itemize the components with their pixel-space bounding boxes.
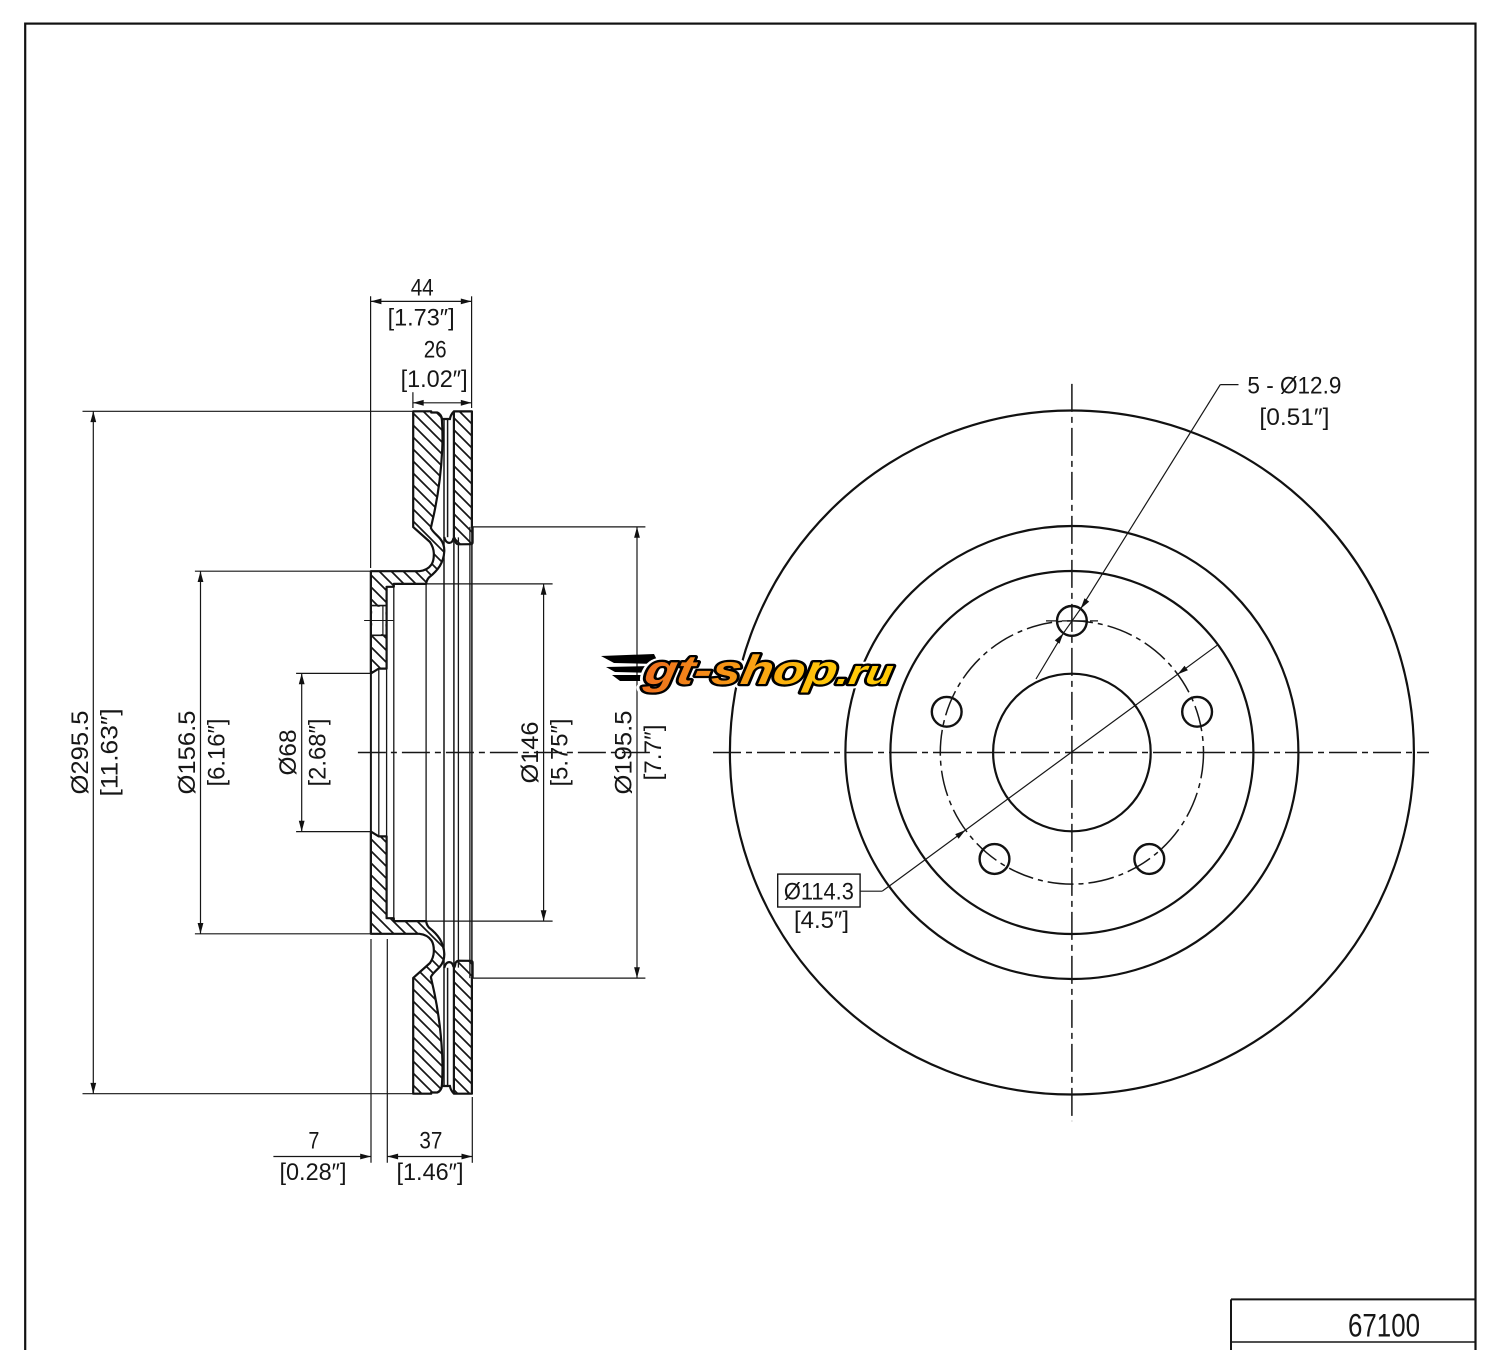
svg-text:[1.46″]: [1.46″] bbox=[397, 1159, 464, 1186]
svg-text:[1.73″]: [1.73″] bbox=[388, 305, 455, 332]
svg-text:Ø114.3: Ø114.3 bbox=[784, 879, 854, 906]
svg-text:[4.5″]: [4.5″] bbox=[794, 907, 849, 934]
svg-text:[5.75″]: [5.75″] bbox=[547, 719, 574, 787]
svg-text:37: 37 bbox=[419, 1127, 442, 1154]
svg-text:67100: 67100 bbox=[1348, 1308, 1420, 1344]
svg-text:[11.63″]: [11.63″] bbox=[96, 709, 123, 797]
svg-text:[0.51″]: [0.51″] bbox=[1259, 404, 1329, 431]
svg-text:5 - Ø12.9: 5 - Ø12.9 bbox=[1247, 372, 1341, 399]
svg-text:7: 7 bbox=[308, 1127, 319, 1154]
svg-text:Ø146: Ø146 bbox=[517, 722, 544, 784]
svg-text:[7.7″]: [7.7″] bbox=[640, 725, 667, 781]
svg-text:Ø156.5: Ø156.5 bbox=[174, 711, 201, 795]
svg-text:26: 26 bbox=[424, 336, 447, 363]
svg-text:[2.68″]: [2.68″] bbox=[305, 719, 332, 787]
svg-text:[1.02″]: [1.02″] bbox=[401, 366, 468, 393]
svg-text:Ø68: Ø68 bbox=[275, 730, 302, 776]
svg-text:[0.28″]: [0.28″] bbox=[280, 1159, 347, 1186]
svg-text:gt-shop.ru: gt-shop.ru bbox=[640, 647, 897, 693]
svg-text:44: 44 bbox=[411, 275, 434, 302]
svg-text:Ø295.5: Ø295.5 bbox=[67, 711, 94, 795]
svg-text:[6.16″]: [6.16″] bbox=[204, 719, 231, 787]
svg-text:Ø195.5: Ø195.5 bbox=[611, 711, 638, 795]
